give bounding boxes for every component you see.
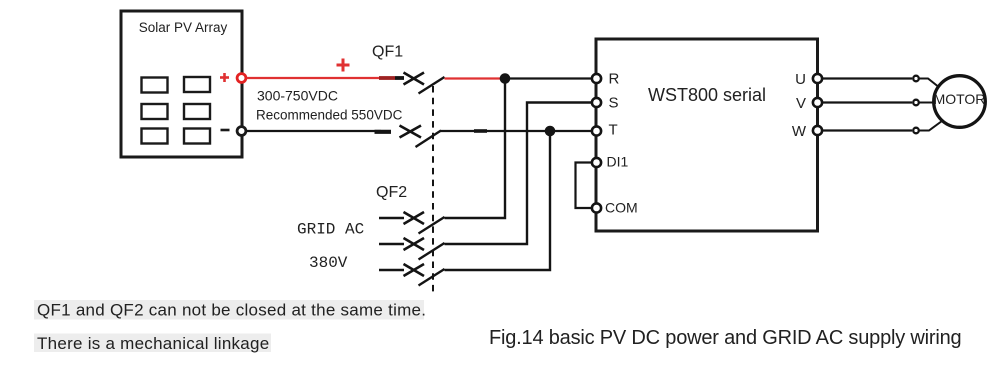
plus sign at PV terminal (220, 73, 229, 82)
terminal T (592, 126, 601, 135)
breaker QF2 pole 1 contact cross (404, 212, 425, 224)
svg-text:W: W (792, 123, 807, 140)
breaker QF2 pole 3 contact cross (404, 264, 425, 276)
note line 1 highlight (34, 300, 424, 320)
wire node A to terminal R (505, 77, 592, 79)
wire U connector to motor (920, 79, 938, 87)
mechanical linkage dashed line (432, 86, 434, 294)
minus sign at PV terminal (221, 129, 230, 132)
svg-text:U: U (795, 71, 806, 88)
breaker QF2 pole 1 blade (419, 217, 445, 234)
wire DC+ thick stub before QF1 (379, 76, 395, 80)
wire QF1 pole 2 to terminal T (440, 130, 592, 132)
svg-text:Fig.14 basic PV DC power and G: Fig.14 basic PV DC power and GRID AC sup… (489, 327, 961, 349)
PV cell 5 (142, 129, 168, 144)
note line 2 highlight (34, 334, 271, 353)
wire grid phase 1 into QF2 (379, 217, 404, 219)
wire V connector to motor (920, 102, 936, 104)
connector U (913, 76, 919, 82)
svg-text:300-750VDC: 300-750VDC (257, 88, 338, 104)
svg-text:Solar PV Array: Solar PV Array (139, 20, 228, 35)
svg-text:DI1: DI1 (607, 154, 629, 170)
svg-text:QF1: QF1 (372, 44, 403, 61)
breaker QF2 pole 2 blade (419, 243, 445, 260)
svg-text:WST800 serial: WST800 serial (648, 85, 766, 105)
terminal R (592, 74, 601, 83)
plus sign above DC+ wire (337, 59, 350, 72)
PV positive terminal (237, 74, 246, 83)
terminal DI1 (592, 158, 601, 167)
breaker QF1 pole 1 blade (419, 77, 445, 94)
svg-text:GRID AC: GRID AC (297, 221, 364, 239)
wire U to motor (823, 77, 913, 79)
PV cell 3 (142, 104, 168, 119)
breaker QF1 pole 2 contact cross (400, 126, 422, 138)
wire T thick stub (474, 129, 487, 133)
svg-text:There is a mechanical linkage: There is a mechanical linkage (37, 334, 269, 353)
PV negative terminal (237, 127, 246, 136)
PV cell 6 (184, 129, 210, 144)
wire DC- thick stub before QF1 (375, 130, 392, 134)
wire QF2 pole 1 to node A (445, 79, 506, 219)
wire DC- from PV to QF1 (247, 130, 382, 132)
svg-text:V: V (796, 95, 806, 112)
wire grid phase 2 into QF2 (379, 243, 404, 245)
svg-text:QF2: QF2 (376, 184, 407, 201)
breaker QF2 pole 2 contact cross (404, 238, 425, 250)
terminal W (813, 126, 822, 135)
PV cell 1 (142, 78, 168, 93)
wire QF1 pole 1 to node A (red) (445, 77, 506, 79)
terminal S (592, 98, 601, 107)
svg-text:R: R (609, 71, 620, 88)
terminal V (813, 98, 822, 107)
wire W connector to motor (920, 120, 945, 131)
wire QF2 pole 3 to node B (445, 131, 551, 270)
PV cell 4 (184, 104, 210, 119)
wire DC+ thick stub black part (395, 76, 404, 80)
motor M1 (934, 76, 986, 128)
solar PV array box (121, 11, 242, 157)
wire grid phase 3 into QF2 (379, 269, 404, 271)
svg-text:COM: COM (605, 200, 638, 216)
svg-text:Recommended 550VDC: Recommended 550VDC (256, 108, 403, 123)
node B junction dot on T line (545, 126, 556, 137)
svg-text:MOTOR: MOTOR (934, 91, 986, 107)
connector V (913, 100, 919, 106)
wire V to motor (823, 101, 913, 103)
PV cell 2 (184, 77, 210, 92)
terminal COM (592, 203, 601, 212)
wire QF2 pole 2 to terminal S (445, 103, 592, 245)
connector W (913, 128, 919, 134)
node A junction dot on R line (500, 73, 511, 84)
svg-text:S: S (609, 95, 619, 112)
wire DC+ from PV to QF1 (red) (247, 77, 382, 79)
breaker QF1 pole 2 blade (416, 131, 442, 148)
svg-text:380V: 380V (309, 254, 348, 272)
wire W to motor (823, 129, 913, 131)
breaker QF2 pole 3 blade (419, 269, 445, 286)
breaker QF1 pole 1 contact cross (404, 73, 425, 85)
terminal U (813, 74, 822, 83)
wire DI1 to COM loop (576, 163, 592, 209)
svg-text:T: T (609, 122, 618, 139)
svg-text:QF1 and QF2 can not be closed: QF1 and QF2 can not be closed at the sam… (37, 301, 426, 320)
inverter WST800 box (596, 39, 818, 231)
